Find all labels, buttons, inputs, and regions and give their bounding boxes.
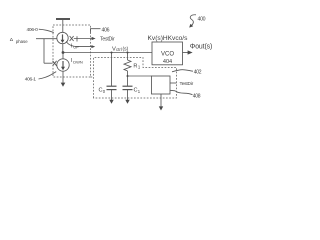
svg-text:I: I (71, 58, 73, 64)
svg-text:Φout(s): Φout(s) (190, 43, 212, 50)
svg-text:DWN: DWN (73, 60, 83, 65)
svg-text:0: 0 (103, 89, 106, 94)
svg-text:402: 402 (194, 70, 202, 76)
svg-text:UP: UP (73, 45, 79, 50)
svg-text:(s): (s) (123, 47, 129, 53)
svg-text:I: I (71, 43, 73, 49)
svg-text:R: R (133, 63, 137, 69)
svg-text:400: 400 (198, 16, 206, 22)
svg-text:TestDir: TestDir (100, 37, 115, 43)
svg-text:408: 408 (193, 93, 201, 99)
svg-text:406: 406 (102, 28, 110, 34)
svg-text:406-0: 406-0 (27, 27, 39, 33)
svg-text:Kv(s)HKvco/s: Kv(s)HKvco/s (148, 35, 189, 42)
svg-text:TestDir: TestDir (180, 81, 194, 87)
svg-text:VCO: VCO (161, 52, 174, 58)
svg-text:Δ: Δ (10, 37, 14, 43)
svg-text:ctrl: ctrl (116, 47, 122, 52)
svg-text:1: 1 (138, 89, 141, 94)
svg-text:phase: phase (16, 39, 28, 44)
svg-text:406-1: 406-1 (25, 76, 37, 82)
svg-text:404: 404 (163, 59, 172, 65)
svg-text:1: 1 (138, 65, 141, 70)
